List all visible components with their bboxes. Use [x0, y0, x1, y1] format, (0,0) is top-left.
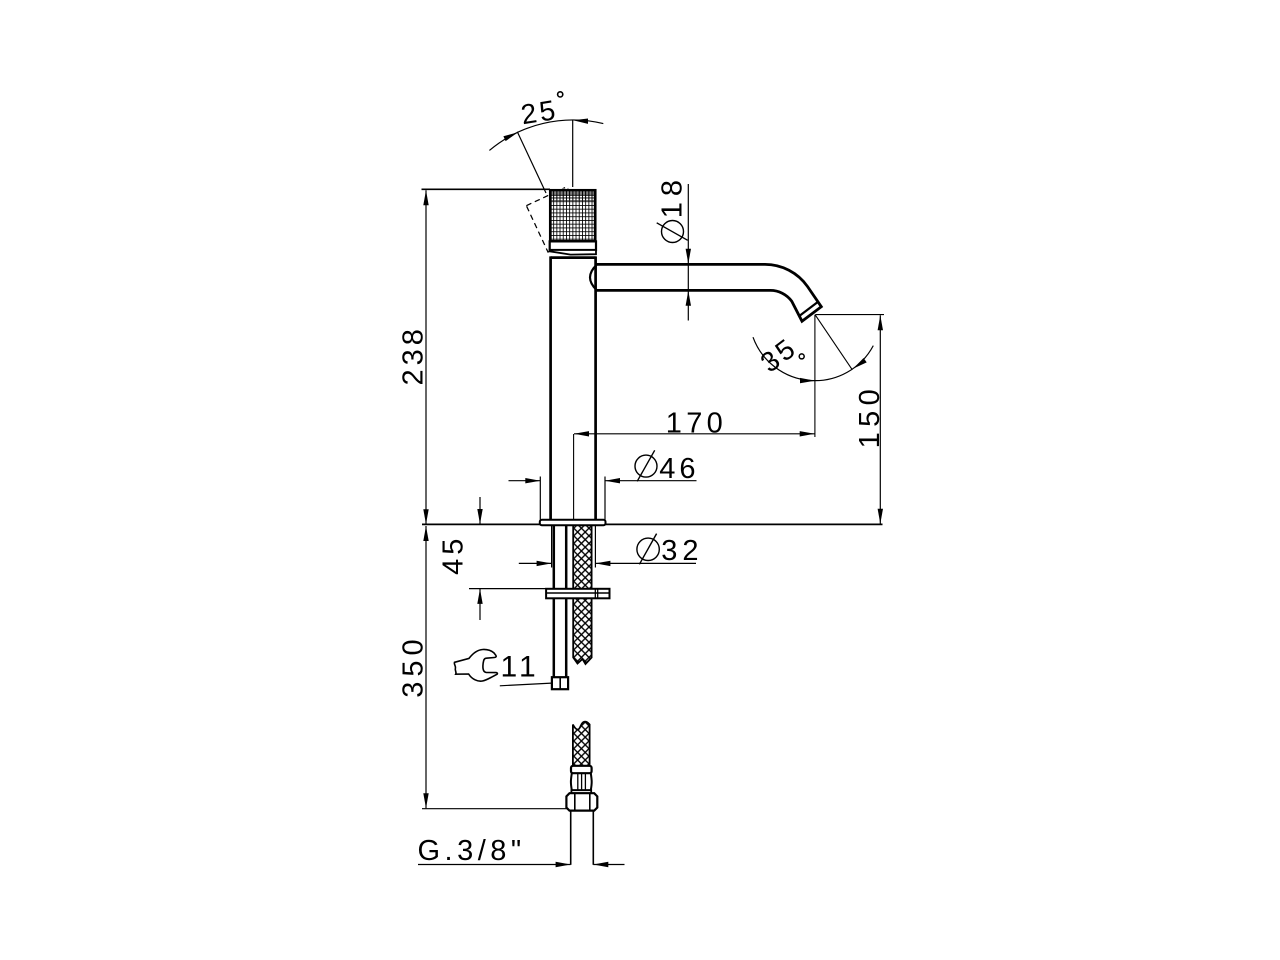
dimension 35 deg arc [753, 337, 873, 380]
base flange [540, 520, 606, 526]
dimension 45 extension line [469, 588, 546, 590]
hose crimp sleeve [571, 773, 592, 790]
label D18 rotated [662, 221, 684, 243]
dimension D18 line [687, 184, 689, 264]
dashed rotated handle outline [526, 187, 588, 252]
stud square end [552, 677, 568, 689]
svg-text:25: 25 [519, 94, 561, 130]
svg-text:170: 170 [666, 407, 727, 439]
hose lower section [573, 722, 590, 766]
dimension 350 line [425, 526, 427, 808]
dimension 35 deg slanted line [815, 315, 852, 370]
dimension D46 line [509, 480, 541, 482]
svg-text:G.3/8": G.3/8" [418, 835, 526, 867]
handle base ring [550, 250, 596, 255]
dimension 25 deg slanted reference line [517, 132, 546, 193]
body centerline [573, 434, 575, 520]
label D32 [637, 538, 659, 560]
dimension 170 line [574, 433, 815, 435]
faucet body [551, 256, 596, 259]
countertop line [422, 523, 883, 525]
svg-text:18: 18 [657, 174, 689, 218]
dimension D32 extension lines [551, 526, 553, 568]
dimension 45 line [479, 497, 481, 524]
dimension 25 deg arc [489, 120, 603, 150]
dimension 350 extension line bottom [422, 808, 568, 810]
handle knurled knob [550, 189, 595, 242]
label D46 [635, 455, 657, 477]
svg-text:32: 32 [661, 535, 703, 567]
svg-text:238: 238 [397, 325, 429, 385]
hose upper section [573, 526, 591, 664]
dimension D32 line [519, 562, 552, 564]
hose crimp lower band [571, 790, 591, 793]
svg-text:46: 46 [659, 453, 699, 485]
dimension 25 deg vertical reference line [572, 120, 574, 187]
wrench symbol [454, 649, 497, 681]
svg-text:45: 45 [437, 535, 469, 575]
svg-text:150: 150 [854, 384, 886, 449]
svg-text:35: 35 [755, 331, 803, 378]
dimension 238 line [425, 190, 427, 524]
dimension D46 extension lines [539, 477, 541, 520]
dimension 238 extension line top [422, 188, 551, 190]
hose collar [571, 766, 592, 774]
threaded pipe end [570, 811, 572, 865]
dimension 150 line [879, 315, 881, 524]
svg-text:11: 11 [501, 650, 540, 683]
dimension G 3/8 line [418, 864, 571, 866]
spout tip inner face line [799, 302, 818, 316]
spout end cap left arc [590, 265, 597, 290]
threaded stud [553, 526, 556, 589]
wrench size leader line [500, 683, 554, 686]
handle lower band [550, 241, 596, 250]
spout [596, 264, 822, 321]
mounting nut plate [546, 589, 609, 599]
dimension D18 line through spout [687, 265, 689, 291]
dimension 150 extension line top [816, 314, 885, 316]
hex nut [566, 793, 597, 810]
svg-text:350: 350 [397, 634, 429, 697]
spout tip extension line vertical [814, 315, 816, 437]
